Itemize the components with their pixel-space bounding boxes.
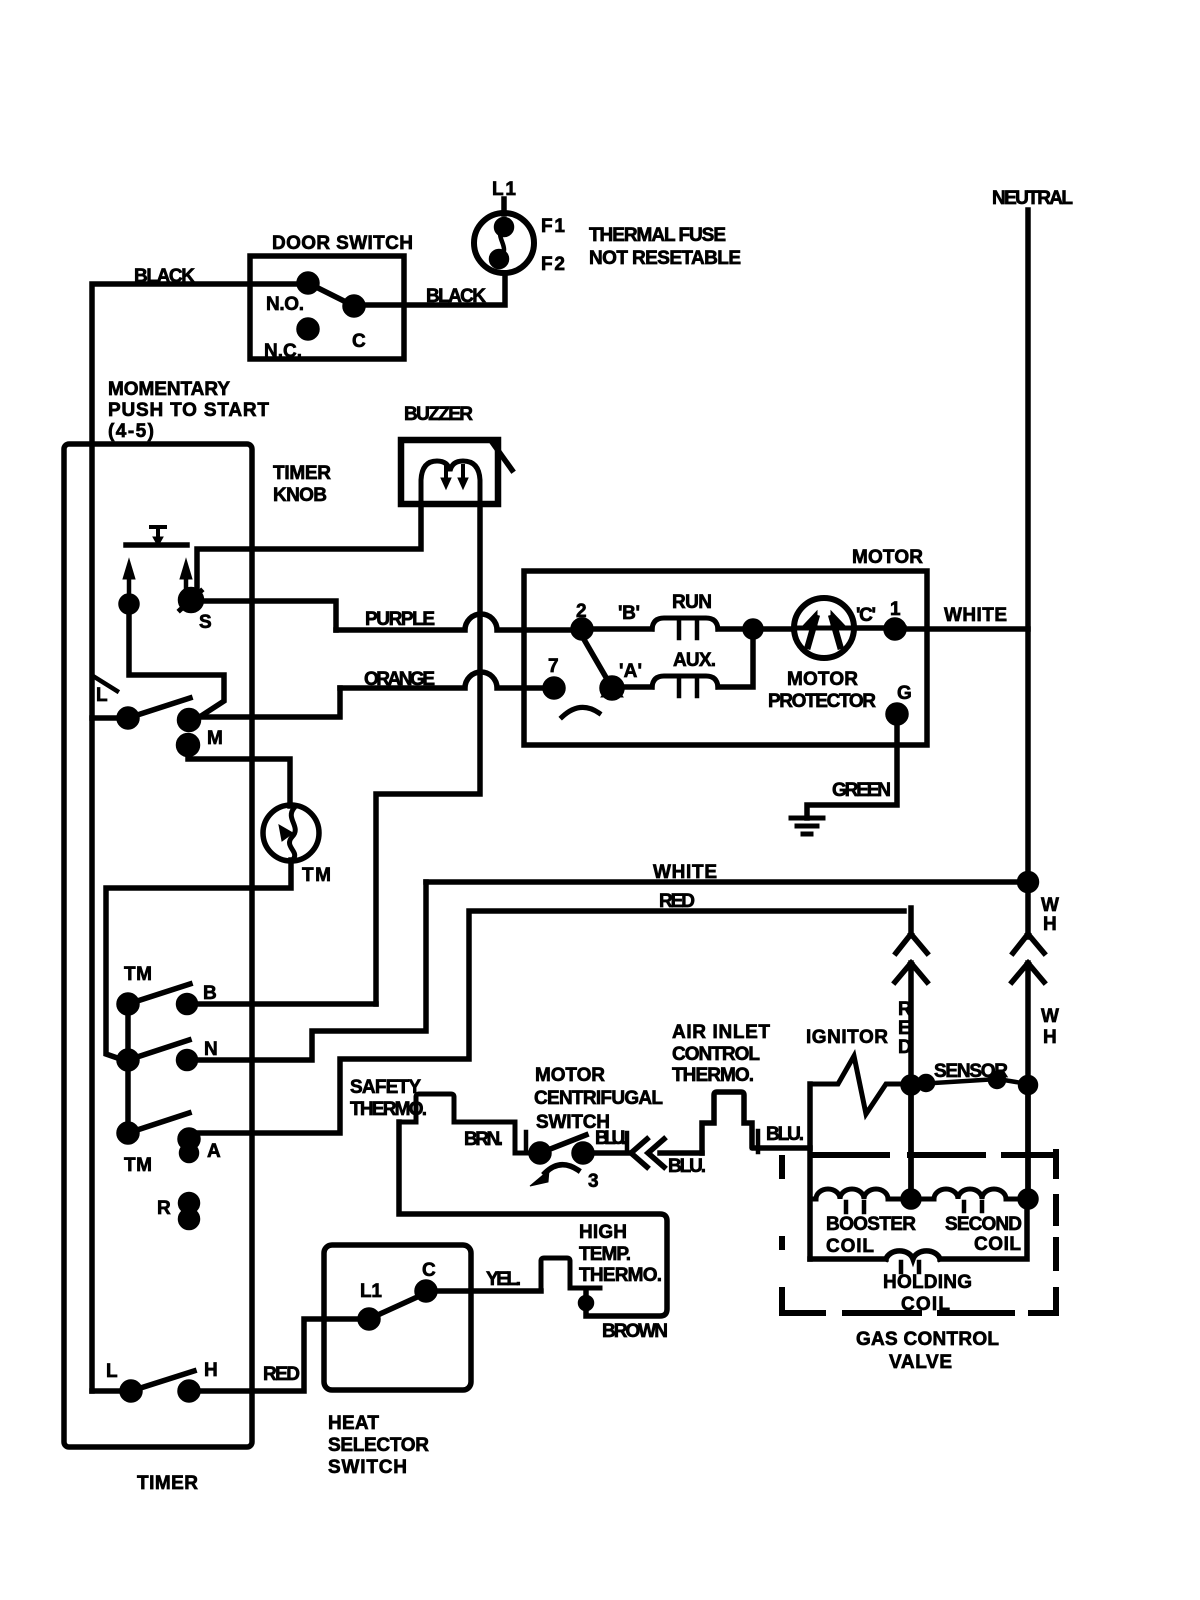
wire GREEN to ground: [807, 723, 897, 818]
wire RED to A contact: [196, 911, 904, 1133]
svg-text:MOMENTARY: MOMENTARY: [108, 379, 230, 400]
svg-text:(4-5): (4-5): [108, 421, 154, 442]
svg-text:3: 3: [588, 1171, 599, 1192]
svg-text:TM: TM: [124, 1155, 152, 1176]
wire PURPLE to motor 2: [336, 614, 574, 630]
centrifugal arc motor: [562, 707, 599, 717]
svg-text:COIL: COIL: [901, 1294, 950, 1315]
svg-text:C: C: [352, 331, 366, 352]
svg-text:ORANGE: ORANGE: [364, 669, 435, 690]
contact A: [180, 1130, 198, 1148]
svg-text:H: H: [1043, 914, 1057, 935]
motor terminal 7: [545, 679, 563, 697]
svg-text:G: G: [897, 683, 912, 704]
wire WHITE terminal 1 to neutral: [904, 626, 1028, 632]
neutral connector chevron: [1013, 934, 1044, 953]
svg-text:W: W: [1041, 895, 1059, 916]
svg-text:C: C: [422, 1260, 436, 1281]
wire plunger to M contact: [129, 610, 224, 716]
svg-text:TIMER: TIMER: [273, 463, 331, 484]
svg-text:PURPLE: PURPLE: [365, 609, 435, 630]
motor terminal 1: [886, 620, 904, 638]
terminal tick BRN: [524, 1132, 529, 1150]
timer knob blade L-M: [128, 698, 190, 718]
RUN winding: [652, 618, 718, 629]
contact M upper: [180, 711, 199, 730]
svg-text:RED: RED: [659, 891, 695, 912]
neutral connector arrow: [1012, 963, 1044, 1199]
brown terminal dot: [581, 1298, 592, 1309]
junction white/neutral: [1020, 874, 1037, 891]
node sensor right: [1021, 1078, 1036, 1093]
wire S to PURPLE: [201, 601, 336, 630]
svg-text:A: A: [207, 1141, 221, 1162]
motor protector: [794, 598, 854, 658]
svg-text:R: R: [157, 1198, 171, 1219]
svg-text:SAFETY: SAFETY: [350, 1077, 421, 1098]
wire M contact to ORANGE: [198, 688, 340, 717]
thermal fuse F1-F2: [474, 213, 534, 273]
motor terminal G: [888, 705, 906, 723]
buzzer coil: [421, 461, 480, 504]
svg-text:H: H: [204, 1360, 218, 1381]
svg-text:SWITCH: SWITCH: [328, 1457, 407, 1478]
wire BLACK from L1 branch to door switch: [92, 284, 299, 1391]
svg-text:1: 1: [890, 599, 901, 620]
sensor: [920, 1077, 933, 1090]
svg-text:VALVE: VALVE: [889, 1352, 952, 1373]
timer motor TM: [263, 805, 319, 861]
booster coil: [810, 1189, 903, 1199]
wire protector to terminal 1: [854, 625, 904, 631]
wire ORANGE to motor 7: [340, 672, 546, 688]
svg-text:GREEN: GREEN: [832, 780, 891, 801]
svg-text:TM: TM: [302, 865, 331, 886]
contact TM-B pivot: [119, 995, 137, 1013]
svg-text:AIR INLET: AIR INLET: [672, 1022, 770, 1043]
svg-text:M: M: [207, 728, 223, 749]
contact 'A': [602, 678, 622, 698]
svg-text:N.O.: N.O.: [266, 294, 304, 315]
common line TM contacts: [125, 1004, 131, 1133]
svg-text:IGNITOR: IGNITOR: [806, 1027, 888, 1048]
contact L pivot: [119, 709, 137, 727]
contact R unused: [181, 1195, 198, 1212]
centrifugal switch contact 4: [531, 1144, 549, 1162]
blade L-H timer bottom: [131, 1371, 194, 1391]
svg-text:BRN.: BRN.: [464, 1129, 503, 1150]
svg-text:COIL: COIL: [826, 1236, 874, 1257]
svg-text:SELECTOR: SELECTOR: [328, 1435, 429, 1456]
svg-text:DOOR SWITCH: DOOR SWITCH: [272, 233, 413, 254]
node booster coil right: [903, 1191, 919, 1207]
push plunger left arrow: [127, 578, 132, 597]
node run/aux: [745, 621, 761, 637]
contact B: [179, 996, 196, 1013]
svg-text:N: N: [204, 1039, 218, 1060]
arrow 4: [530, 1170, 549, 1186]
wire white to N contact: [195, 882, 426, 1060]
svg-text:L: L: [106, 1361, 118, 1382]
svg-text:NOT RESETABLE: NOT RESETABLE: [589, 248, 741, 269]
contact L timer bottom: [122, 1382, 140, 1400]
svg-text:SENSOR: SENSOR: [934, 1061, 1008, 1082]
contact S: [181, 590, 202, 611]
svg-text:W: W: [1041, 1006, 1059, 1027]
svg-text:THERMO.: THERMO.: [672, 1065, 754, 1086]
wire M lower to timer motor TM: [188, 750, 290, 806]
svg-text:BLACK: BLACK: [134, 266, 195, 287]
blade L1-C: [369, 1293, 426, 1319]
wire H to heat selector L1 (RED): [198, 1319, 360, 1391]
svg-text:KNOB: KNOB: [273, 485, 327, 506]
svg-text:AUX.: AUX.: [673, 650, 716, 671]
push to start button bar: [126, 542, 187, 548]
wire S to buzzer: [197, 504, 421, 588]
wire WHITE motor to neutral: [426, 879, 1028, 885]
ignitor: [810, 1056, 903, 1114]
wire BROWN down and loop to safety thermo: [399, 1122, 667, 1316]
svg-text:BUZZER: BUZZER: [404, 404, 473, 425]
contact C heat selector: [417, 1282, 435, 1300]
svg-text:MOTOR: MOTOR: [535, 1065, 605, 1086]
wire B contact to buzzer leg: [195, 1001, 376, 1007]
svg-text:WHITE: WHITE: [944, 605, 1007, 626]
wire TM to contacts common: [106, 860, 291, 1061]
svg-text:HOLDING: HOLDING: [883, 1272, 972, 1293]
terminal tick BLU gas valve: [752, 1131, 758, 1152]
ground: [791, 818, 823, 834]
svg-text:NEUTRAL: NEUTRAL: [992, 188, 1073, 209]
door switch C contact: [345, 297, 363, 315]
svg-text:'A': 'A': [619, 661, 642, 682]
second coil: [919, 1189, 1020, 1199]
svg-text:F2: F2: [541, 254, 565, 275]
centrifugal blade: [540, 1135, 586, 1153]
svg-text:7: 7: [548, 656, 559, 677]
gas control valve dashed box: [782, 1152, 1056, 1313]
svg-text:'C': 'C': [856, 605, 876, 626]
svg-text:B: B: [203, 983, 217, 1004]
svg-text:BROWN: BROWN: [602, 1321, 668, 1342]
svg-text:TEMP.: TEMP.: [579, 1244, 631, 1265]
wire BLU to air inlet thermo: [660, 1150, 702, 1156]
wire fuse to door switch C (BLACK): [363, 273, 505, 305]
wire BLU to connector: [592, 1150, 630, 1156]
svg-text:H: H: [1043, 1027, 1057, 1048]
heat selector switch box: [324, 1245, 471, 1390]
svg-text:CONTROL: CONTROL: [672, 1044, 760, 1065]
svg-text:THERMAL FUSE: THERMAL FUSE: [589, 225, 726, 246]
svg-text:PROTECTOR: PROTECTOR: [768, 691, 876, 712]
blade B: [128, 984, 190, 1004]
svg-text:PUSH TO START: PUSH TO START: [108, 400, 269, 421]
safety thermostat bump: [399, 1094, 531, 1153]
wire neutral rail second coil to sensor: [1025, 1093, 1031, 1191]
blade N: [128, 1040, 189, 1060]
wire YEL C to high temp thermo: [435, 1288, 541, 1294]
svg-text:BLU.: BLU.: [766, 1124, 804, 1145]
push plunger S arrow: [184, 578, 189, 588]
air inlet control thermostat bump: [702, 1092, 752, 1153]
svg-text:WHITE: WHITE: [653, 862, 717, 883]
door switch blade: [308, 283, 354, 306]
wire red rail booster to ignitor: [908, 1093, 914, 1191]
svg-text:R: R: [898, 999, 912, 1020]
wire BLU into gas valve: [754, 1145, 810, 1151]
wire L1 lead: [501, 199, 507, 214]
neutral wire: [1025, 210, 1031, 937]
svg-text:HEAT: HEAT: [328, 1413, 379, 1434]
svg-text:HIGH: HIGH: [579, 1222, 627, 1243]
svg-text:YEL.: YEL.: [486, 1269, 521, 1290]
contact TM-N pivot: [119, 1051, 137, 1069]
svg-text:GAS CONTROL: GAS CONTROL: [856, 1329, 999, 1350]
centrifugal switch contact 3: [574, 1144, 592, 1162]
centrifugal arc: [545, 1165, 578, 1173]
blade A: [128, 1113, 189, 1133]
svg-text:BLU.: BLU.: [668, 1156, 706, 1177]
svg-text:COIL: COIL: [974, 1234, 1021, 1255]
svg-text:F1: F1: [541, 216, 565, 237]
svg-text:CENTRIFUGAL: CENTRIFUGAL: [534, 1088, 663, 1109]
contact TM-A pivot: [119, 1124, 137, 1142]
svg-text:S: S: [199, 612, 212, 633]
node second coil right: [1020, 1191, 1036, 1207]
svg-text:THERMO.: THERMO.: [579, 1265, 662, 1286]
AUX winding: [652, 676, 718, 687]
svg-text:BLU.: BLU.: [595, 1128, 626, 1149]
timer box: [64, 444, 252, 1447]
svg-text:L1: L1: [360, 1281, 382, 1302]
svg-text:2: 2: [576, 601, 587, 622]
svg-text:N.C.: N.C.: [264, 341, 302, 362]
motor blade 2-A: [582, 636, 611, 686]
wire buzzer right leg down (hops): [376, 504, 480, 1004]
door switch N.C. contact: [299, 320, 317, 338]
svg-text:TM: TM: [124, 964, 152, 985]
wire A to AUX: [620, 684, 652, 690]
wire 2 to RUN: [590, 626, 652, 632]
motor box: [524, 571, 927, 745]
high temp thermostat bump: [541, 1258, 600, 1291]
contact N: [179, 1052, 196, 1069]
red connector chevron: [896, 908, 927, 953]
contact L1 heat selector: [360, 1310, 378, 1328]
svg-text:THERMO.: THERMO.: [350, 1099, 427, 1120]
svg-text:BLACK: BLACK: [426, 286, 486, 307]
terminal tick BLU 1: [625, 1133, 630, 1150]
motor terminal 2: [573, 620, 591, 638]
buzzer striker tail: [492, 442, 512, 470]
wire AUX to node: [718, 637, 753, 687]
door switch N.O. contact: [299, 274, 317, 292]
svg-text:L: L: [96, 685, 108, 706]
contact M lower: [179, 736, 198, 755]
gas valve left rail: [807, 1084, 813, 1259]
svg-text:BOOSTER: BOOSTER: [826, 1214, 916, 1235]
red connector arrow: [895, 963, 927, 1199]
buzzer box: [401, 440, 498, 504]
node ignitor/red junction: [903, 1077, 919, 1093]
gas valve bottom rail with holding coil: [810, 1207, 1027, 1259]
svg-text:'B': 'B': [618, 603, 640, 624]
svg-text:TIMER: TIMER: [137, 1473, 198, 1494]
door switch box: [250, 256, 404, 359]
wire RUN to node: [718, 626, 794, 632]
svg-text:MOTOR: MOTOR: [787, 669, 858, 690]
svg-text:MOTOR: MOTOR: [852, 547, 923, 568]
svg-text:SECOND: SECOND: [945, 1214, 1022, 1235]
svg-text:RUN: RUN: [672, 592, 712, 613]
svg-text:RED: RED: [263, 1364, 300, 1385]
svg-text:D: D: [898, 1037, 912, 1058]
svg-text:E: E: [898, 1018, 911, 1039]
connector chevrons BLU: [631, 1139, 664, 1167]
contact H: [180, 1382, 198, 1400]
